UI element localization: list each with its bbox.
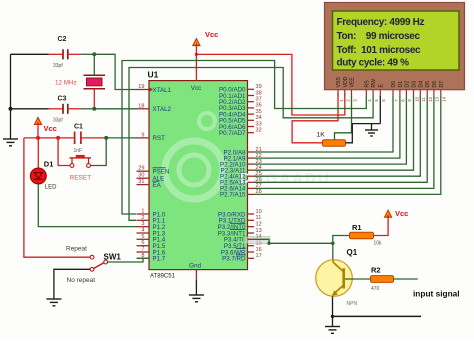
wire base to R2 <box>345 278 370 280</box>
wire P3.4 to base node <box>254 239 333 243</box>
capacitor C3 <box>53 96 68 124</box>
pin 29 (PSEN) <box>137 166 170 176</box>
svg-text:12 MHz: 12 MHz <box>55 79 77 86</box>
LCD pin 3 (VEE) <box>350 77 358 102</box>
wire Vcc arrow to U1 Vcc pin <box>195 46 197 81</box>
LCD pin 6 (E) <box>378 84 386 102</box>
svg-text:D0: D0 <box>391 81 397 88</box>
svg-text:31: 31 <box>138 179 144 185</box>
wire node down to collector <box>332 243 334 260</box>
transistor Q1 <box>316 248 358 307</box>
wire C2 to node <box>68 53 95 55</box>
node pin14 jog <box>267 242 270 245</box>
svg-text:38: 38 <box>256 90 262 96</box>
wire P2.5 to LCD D5 <box>254 96 427 182</box>
svg-text:EA: EA <box>153 182 162 189</box>
crystal X1 12MHz <box>55 75 105 89</box>
wire left rail down <box>10 54 12 139</box>
svg-text:37: 37 <box>256 97 262 103</box>
resistor R2 470 <box>371 265 394 292</box>
wire button right to RST node <box>90 138 106 166</box>
wire P2.7 to LCD D7 <box>254 96 441 194</box>
ground (SW1) <box>46 299 61 306</box>
pin 23 (P2.2/A10) <box>220 159 262 169</box>
pin 16 (P3.6/WR) <box>221 247 262 256</box>
svg-text:17: 17 <box>256 253 262 259</box>
svg-text:35: 35 <box>256 109 262 115</box>
svg-text:D2: D2 <box>404 81 410 88</box>
wire LCD RS to P1.0 <box>122 61 366 215</box>
svg-text:11: 11 <box>421 97 426 102</box>
pin 21 (P2.0/A8) <box>223 147 261 157</box>
svg-text:RESET: RESET <box>70 174 92 181</box>
svg-text:1: 1 <box>141 209 144 215</box>
pin 1 (P1.0) <box>137 209 166 219</box>
wire LCD RW to P1.1 <box>129 68 373 221</box>
pin 28 (P2.7/A15) <box>220 189 262 199</box>
svg-text:14: 14 <box>442 96 447 101</box>
pin 6 (P1.5) <box>137 240 166 250</box>
wire U1 Gnd pin down <box>195 270 197 295</box>
svg-text:XTAL1: XTAL1 <box>153 87 172 94</box>
pin 37 (P0.2/AD2) <box>219 97 262 107</box>
node button-left junction <box>56 136 60 140</box>
svg-text:D7: D7 <box>439 81 445 88</box>
resistor 1K (LCD contrast) <box>317 132 346 147</box>
svg-text:AT89C51: AT89C51 <box>150 273 176 279</box>
svg-text:SW1: SW1 <box>104 253 122 262</box>
ground (Q1) <box>325 327 340 334</box>
svg-text:VEE: VEE <box>350 77 356 88</box>
LCD pin 7 (D0) <box>391 81 399 102</box>
ground (U1) <box>189 295 204 302</box>
pin 5 (P1.4) <box>137 234 166 244</box>
pin 8 (P1.7) <box>137 253 166 263</box>
svg-text:2: 2 <box>141 215 144 221</box>
svg-text:33: 33 <box>256 121 262 127</box>
svg-text:Ton: 99 microsec: Ton: 99 microsec <box>337 31 421 42</box>
svg-text:Vcc: Vcc <box>44 124 57 133</box>
LCD pin 8 (D1) <box>398 81 406 102</box>
wire C3 row (left) <box>11 108 64 110</box>
svg-text:10: 10 <box>414 96 419 101</box>
svg-text:NPN: NPN <box>347 301 358 307</box>
svg-text:13: 13 <box>256 228 262 234</box>
LCD pin 12 (D5) <box>425 81 433 102</box>
LCD pin 10 (D3) <box>412 81 420 102</box>
svg-text:C2: C2 <box>58 36 67 43</box>
selection highlight on pin 14 <box>244 237 271 244</box>
pin 26 (P2.5/A13) <box>220 177 262 187</box>
svg-text:1K: 1K <box>317 132 326 139</box>
label U1 <box>148 70 159 80</box>
wire pot right to ground net <box>346 124 381 143</box>
svg-text:P1.7: P1.7 <box>153 256 166 263</box>
svg-text:LED: LED <box>45 184 57 190</box>
push button RESET <box>70 155 92 181</box>
label AT89C51 <box>150 273 176 279</box>
svg-text:1nF: 1nF <box>74 148 83 154</box>
svg-text:470: 470 <box>371 286 380 292</box>
pin 35 (P0.4/AD4) <box>219 109 262 119</box>
svg-text:D1: D1 <box>398 81 404 88</box>
svg-text:Vcc: Vcc <box>191 85 202 92</box>
wire Vcc to RST rail <box>37 125 39 138</box>
watermark logo <box>165 113 331 199</box>
pin 22 (P2.1/A9) <box>223 153 261 163</box>
pin 2 (P1.1) <box>137 215 166 225</box>
svg-text:33pf: 33pf <box>53 63 63 69</box>
node emitter/ground <box>331 315 334 318</box>
svg-text:R2: R2 <box>371 265 381 274</box>
pin 9 (RST) <box>137 132 166 142</box>
LCD text lines <box>337 17 425 68</box>
svg-text:C3: C3 <box>58 96 67 103</box>
svg-text:29: 29 <box>138 166 144 172</box>
node collector junction <box>331 242 335 246</box>
LCD pin 5 (RW) <box>371 79 379 102</box>
ground (crystal) <box>3 139 18 146</box>
LCD pin 14 (D7) <box>439 81 447 102</box>
wire Vcc branch to LCD VDD <box>196 54 344 115</box>
svg-text:12: 12 <box>428 96 433 101</box>
svg-text:39: 39 <box>256 84 262 90</box>
wire P2.6 to LCD D6 <box>254 96 434 188</box>
pin 19 (XTAL1) <box>137 84 172 94</box>
svg-text:5: 5 <box>141 234 144 240</box>
svg-text:10k: 10k <box>374 241 383 247</box>
wire LCD VEE to pot wiper <box>335 96 352 140</box>
wire P2.1 to LCD D1 <box>254 96 400 158</box>
node Vcc branch <box>195 53 198 56</box>
wire C3 to node <box>68 108 95 110</box>
LCD pin 13 (D6) <box>432 81 440 102</box>
node left rail / C3 <box>9 107 13 111</box>
pin 7 (P1.6) <box>137 247 166 257</box>
pin 24 (P2.3/A11) <box>221 165 262 175</box>
label No repeat <box>67 277 96 284</box>
ground (LCD) <box>365 124 378 136</box>
wire emitter down <box>332 296 334 316</box>
svg-text:19: 19 <box>138 84 144 90</box>
svg-text:32: 32 <box>256 128 262 134</box>
wire button left to rail <box>58 138 70 166</box>
pin 32 (P0.7/AD7) <box>219 128 262 138</box>
pin 33 (P0.6/AD6) <box>219 121 262 131</box>
wire rail to LED <box>37 138 39 168</box>
svg-text:VDD: VDD <box>343 76 349 87</box>
power Vcc (left) <box>34 118 56 133</box>
svg-text:34: 34 <box>256 115 262 121</box>
svg-text:30: 30 <box>138 173 144 179</box>
wire R2 to input <box>394 278 418 280</box>
wire emitter to ground <box>332 316 334 326</box>
LCD display LCD1 frame <box>325 3 465 90</box>
svg-text:duty cycle: 49 %: duty cycle: 49 % <box>337 58 410 69</box>
svg-text:P2.7/A15: P2.7/A15 <box>220 192 246 199</box>
svg-text:RS: RS <box>364 80 370 88</box>
pin 10 (P3.0/RXD) <box>218 209 262 219</box>
svg-text:C1: C1 <box>74 123 83 130</box>
wire rail corner to Repeat terminal <box>24 138 90 257</box>
pin 17 (P3.7/RD) <box>222 253 262 263</box>
svg-text:P3.7/RD: P3.7/RD <box>222 256 246 263</box>
wire RST rail <box>24 137 106 139</box>
pin 27 (P2.6/A14) <box>220 183 262 193</box>
pin 38 (P0.1/AD1) <box>219 90 262 100</box>
svg-text:input signal: input signal <box>413 288 460 298</box>
svg-text:R1: R1 <box>352 223 362 232</box>
svg-text:Toff: 101 microsec: Toff: 101 microsec <box>337 45 422 56</box>
svg-text:RST: RST <box>153 135 166 142</box>
wire P2.4 to LCD D4 <box>254 96 420 176</box>
svg-text:D3: D3 <box>412 81 418 88</box>
wire node to RST pin <box>106 137 137 139</box>
pin 39 (P0.0/AD0) <box>219 84 262 94</box>
svg-text:4: 4 <box>141 228 144 234</box>
svg-text:3: 3 <box>141 221 144 227</box>
svg-text:Q1: Q1 <box>347 248 358 257</box>
svg-text:PSEN: PSEN <box>153 169 170 176</box>
IC U1 (microcontroller AT89C51) <box>149 81 248 270</box>
pin 36 (P0.3/AD3) <box>219 103 262 113</box>
node Vcc/LED junction <box>36 136 40 140</box>
svg-text:12: 12 <box>256 222 262 228</box>
svg-text:Vcc: Vcc <box>395 209 408 218</box>
node C3/XTAL2 <box>92 107 96 111</box>
LCD pin 2 (VDD) <box>343 76 351 102</box>
wire P2.2 to LCD D2 <box>254 96 406 164</box>
wire node to XTAL2 <box>94 108 137 110</box>
svg-text:11: 11 <box>256 215 262 221</box>
capacitor C2 <box>53 36 68 69</box>
pin 11 (P3.1/TXD) <box>219 215 262 225</box>
pin 14 (P3.4/T0) <box>224 234 262 244</box>
pin 34 (P0.5/AD5) <box>219 115 262 125</box>
pin 4 (P1.3) <box>137 228 166 238</box>
power Vcc (above U1) <box>193 30 219 46</box>
resistor R1 10k <box>350 223 383 247</box>
svg-text:D5: D5 <box>425 81 431 88</box>
pin 3 (P1.2) <box>137 221 166 231</box>
LCD pin 4 (RS) <box>364 80 372 102</box>
pin 30 (ALE) <box>137 173 165 183</box>
wire node up to R1 <box>333 236 349 244</box>
svg-text:VSS: VSS <box>336 77 342 88</box>
svg-text:XTAL2: XTAL2 <box>153 106 172 113</box>
LCD pin 1 (VSS) <box>336 77 344 102</box>
wire node to XTAL1 <box>94 54 137 89</box>
node RST junction <box>104 136 108 140</box>
svg-text:Gnd: Gnd <box>189 262 201 269</box>
svg-text:Repeat: Repeat <box>66 246 87 253</box>
svg-text:9: 9 <box>141 132 144 138</box>
wire P2.3 to LCD D3 <box>254 96 414 170</box>
power Vcc (right) <box>385 209 409 218</box>
svg-text:D4: D4 <box>418 81 424 88</box>
svg-text:13: 13 <box>435 96 440 101</box>
wire ground return (input) <box>333 315 422 317</box>
svg-text:DUGAADU: DUGAADU <box>240 170 331 187</box>
svg-text:U1: U1 <box>148 70 159 80</box>
LCD pin 11 (D4) <box>418 81 426 102</box>
wire No-repeat to ground <box>54 269 90 298</box>
svg-text:D6: D6 <box>432 81 438 88</box>
pin 13 (P3.3/INT1) <box>218 228 262 238</box>
wire node to crystal top <box>93 54 95 75</box>
LED D1 <box>30 160 57 191</box>
svg-text:33pf: 33pf <box>53 118 63 124</box>
pin 31 (EA) <box>137 179 162 189</box>
svg-text:E: E <box>378 84 384 88</box>
svg-text:P0.7/AD7: P0.7/AD7 <box>219 130 246 137</box>
wire P2.0 to LCD D0 <box>254 96 393 152</box>
svg-text:6: 6 <box>141 240 144 246</box>
label Repeat <box>66 246 87 253</box>
wire LED to P1.2 <box>38 184 137 227</box>
svg-text:Vcc: Vcc <box>205 30 218 39</box>
label input signal <box>413 288 460 298</box>
pin 18 (XTAL2) <box>137 103 172 113</box>
svg-text:Frequency: 4999 Hz: Frequency: 4999 Hz <box>337 17 425 28</box>
LCD pin 9 (D2) <box>404 81 412 102</box>
svg-text:10: 10 <box>256 209 262 215</box>
capacitor C1 <box>74 123 84 154</box>
pin 12 (P3.2/INT0) <box>218 222 262 232</box>
svg-text:16: 16 <box>256 247 262 253</box>
svg-text:No repeat: No repeat <box>67 277 96 284</box>
wire C2 row (left) <box>11 53 64 55</box>
svg-text:D1: D1 <box>44 160 54 169</box>
node C2/XTAL1 <box>92 52 96 56</box>
wire LCD E down to ground net <box>379 96 381 124</box>
pin 25 (P2.4/A12) <box>220 171 262 181</box>
wire crystal bottom to node <box>93 89 95 109</box>
svg-text:RW: RW <box>371 79 377 88</box>
wire R1 to Vcc <box>374 217 389 235</box>
svg-text:36: 36 <box>256 103 262 109</box>
wire SW1 common to P1.7 <box>108 258 149 262</box>
svg-text:7: 7 <box>141 247 144 253</box>
wire LCD VSS to contrast pot <box>292 93 338 143</box>
switch SW1 <box>90 253 121 272</box>
pin 15 (P3.5/T1) <box>224 241 262 251</box>
svg-text:18: 18 <box>138 103 144 109</box>
